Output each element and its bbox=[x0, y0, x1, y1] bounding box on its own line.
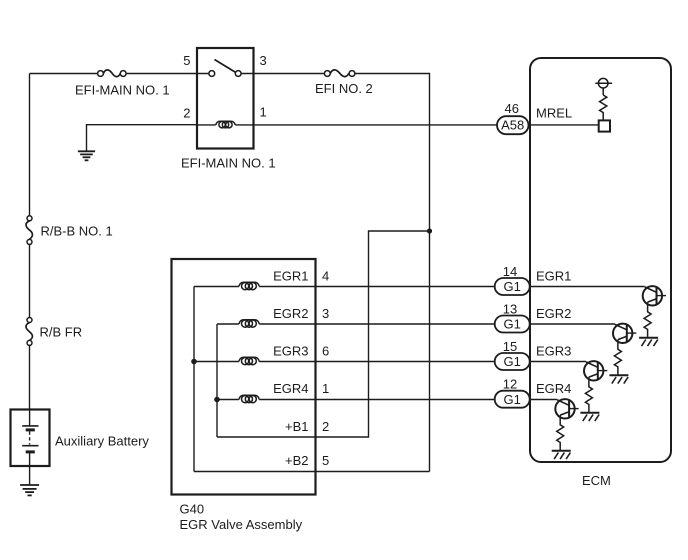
svg-text:ECM: ECM bbox=[582, 473, 611, 488]
svg-text:EGR2: EGR2 bbox=[273, 306, 308, 321]
svg-text:G1: G1 bbox=[504, 354, 521, 369]
svg-text:5: 5 bbox=[183, 53, 190, 68]
svg-text:EGR Valve Assembly: EGR Valve Assembly bbox=[180, 517, 303, 532]
svg-text:MREL: MREL bbox=[536, 105, 572, 120]
svg-text:46: 46 bbox=[505, 101, 519, 116]
svg-text:2: 2 bbox=[322, 419, 329, 434]
svg-text:15: 15 bbox=[503, 339, 517, 354]
svg-text:14: 14 bbox=[503, 264, 517, 279]
svg-text:EFI NO. 2: EFI NO. 2 bbox=[315, 81, 373, 96]
svg-text:EGR1: EGR1 bbox=[536, 268, 571, 283]
svg-text:5: 5 bbox=[322, 453, 329, 468]
svg-text:3: 3 bbox=[260, 53, 267, 68]
svg-text:A58: A58 bbox=[501, 118, 524, 133]
svg-text:4: 4 bbox=[322, 268, 329, 283]
svg-text:EGR4: EGR4 bbox=[273, 381, 308, 396]
svg-text:+B1: +B1 bbox=[285, 419, 309, 434]
svg-text:13: 13 bbox=[503, 302, 517, 317]
svg-text:EGR3: EGR3 bbox=[273, 343, 308, 358]
svg-text:EGR3: EGR3 bbox=[536, 343, 571, 358]
svg-text:EGR4: EGR4 bbox=[536, 381, 571, 396]
svg-text:1: 1 bbox=[260, 105, 267, 120]
svg-text:G1: G1 bbox=[504, 392, 521, 407]
svg-text:EFI-MAIN NO. 1: EFI-MAIN NO. 1 bbox=[75, 83, 170, 98]
svg-text:12: 12 bbox=[503, 377, 517, 392]
svg-text:R/B-B NO. 1: R/B-B NO. 1 bbox=[41, 224, 113, 239]
svg-text:G1: G1 bbox=[504, 279, 521, 294]
svg-text:G1: G1 bbox=[504, 317, 521, 332]
svg-text:1: 1 bbox=[322, 381, 329, 396]
svg-text:G40: G40 bbox=[180, 502, 205, 517]
svg-text:EFI-MAIN NO. 1: EFI-MAIN NO. 1 bbox=[181, 156, 276, 171]
svg-text:Auxiliary Battery: Auxiliary Battery bbox=[55, 434, 149, 449]
svg-text:+B2: +B2 bbox=[285, 453, 309, 468]
svg-text:6: 6 bbox=[322, 343, 329, 358]
svg-text:EGR1: EGR1 bbox=[273, 268, 308, 283]
svg-text:EGR2: EGR2 bbox=[536, 306, 571, 321]
svg-text:2: 2 bbox=[183, 105, 190, 120]
svg-text:R/B FR: R/B FR bbox=[40, 325, 83, 340]
svg-text:3: 3 bbox=[322, 306, 329, 321]
